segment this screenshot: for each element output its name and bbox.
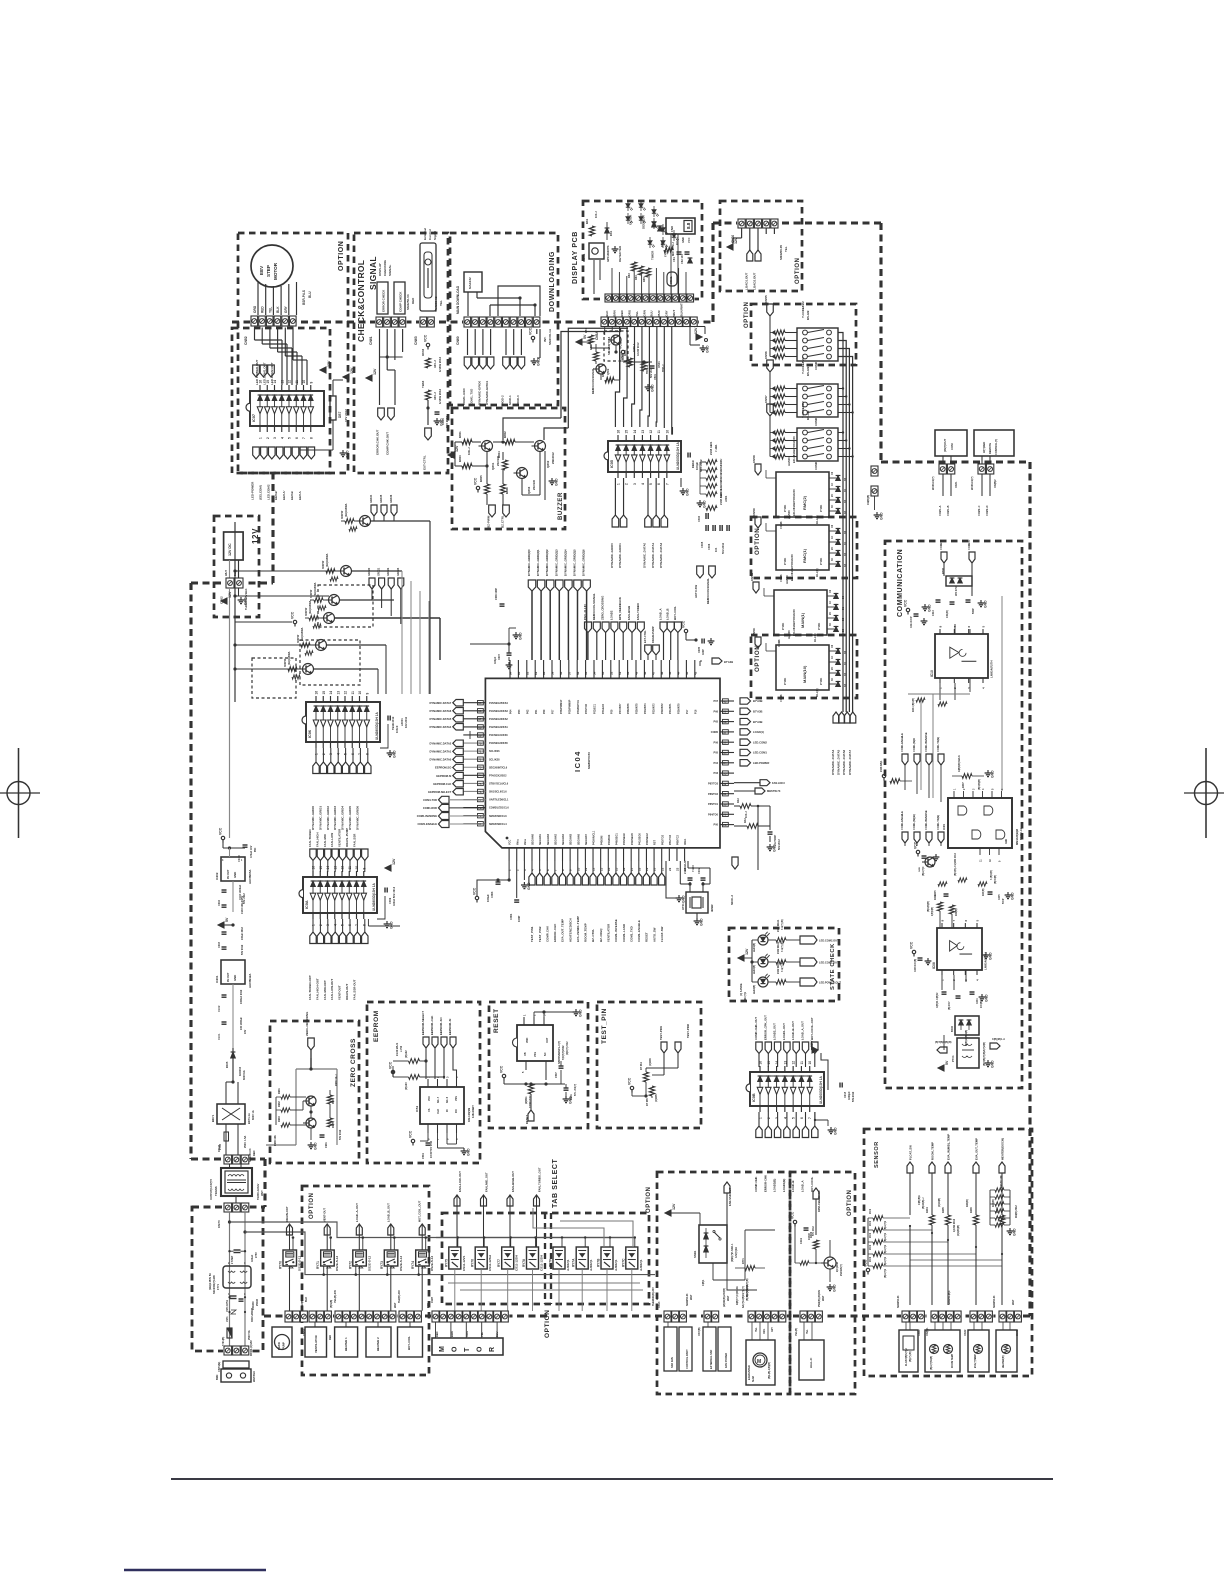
svg-text:CN11: CN11 [217,1144,221,1152]
connector CN3A [284,1311,308,1323]
svg-text:9*10K: 9*10K [783,678,787,685]
svg-text:COM2..C: COM2..C [978,505,981,516]
svg-text:8.8: 8.8 [686,222,691,229]
OPTION box (MAIN10) [751,635,857,698]
svg-text:EEPROM..SI: EEPROM..SI [448,1018,452,1035]
svg-text:110(?)1: 110(?)1 [745,991,747,1000]
collector wires right [313,521,440,669]
svg-text:GR120: GR120 [367,567,371,576]
label YEL(B)-23V [330,1290,337,1308]
relay RY72 [348,1250,371,1271]
svg-text:2SD2012: 2SD2012 [551,452,555,464]
zc wires [276,1090,330,1140]
svg-text:WHT: WHT [224,570,228,576]
svg-text:P17: P17 [686,709,689,714]
svg-text:GR121: GR121 [377,567,381,576]
svg-text:IC201: IC201 [215,975,219,983]
svg-text:1: 1 [617,483,621,485]
svg-text:FAN..TURBO: FAN..TURBO [308,829,312,847]
labels below IC0A [308,975,356,1000]
svg-text:R405: R405 [942,1207,945,1213]
svg-text:C31(B): C31(B) [946,610,949,618]
svg-text:55: 55 [584,671,588,675]
svg-text:7-4(?) (B): 7-4(?) (B) [781,919,784,930]
svg-text:45: 45 [668,671,672,675]
labels sensor ladder [1000,1175,1018,1218]
resistor RB11 (reset) [525,1084,534,1108]
svg-text:HALL-IC: HALL-IC [809,1358,813,1368]
box COMP CHECK [394,282,405,314]
svg-text:HOT..COIL: HOT..COIL [407,1336,411,1350]
SSR RY77 [497,1247,519,1271]
svg-text:C203: C203 [218,941,221,948]
12V arrow (check) [366,368,377,381]
svg-text:BZ-PWM: BZ-PWM [487,515,491,528]
main PCB boundary right edge upper [879,223,882,462]
VCC (sensor) [864,1259,870,1274]
svg-text:DB7: DB7 [338,411,342,418]
svg-text:ULN2803D(13H 1A: ULN2803D(13H 1A [375,711,379,740]
GND (cn33) [874,496,884,520]
wire ROOM.TEMP down [931,1173,933,1215]
svg-text:INT.: INT. [543,337,547,343]
svg-text:12V: 12V [455,445,459,452]
svg-text:(C)R05: (C)R05 [655,1094,658,1102]
main PCB boundary right jog up [711,223,714,322]
wire right col down [758,806,770,870]
wires sensor loads [906,1323,1010,1331]
GND (IC0B) [828,1120,838,1135]
svg-text:16: 16 [315,691,319,695]
svg-text:12V: 12V [228,591,232,598]
IC04 left pin stubs [463,703,485,824]
IC04 bottom pin stubs [509,848,684,861]
TAB SELECT box [442,1213,649,1304]
IC MAX232 (download) [464,272,482,292]
wire SSR RY7C down [631,1269,633,1311]
IC IC09 comm gate [942,788,1023,862]
svg-text:RPN_FEEDBACK: RPN_FEEDBACK [618,597,622,620]
svg-text:12V: 12V [672,1203,676,1210]
net flag EVA.IN/MID.TEMP (bottom) [575,873,581,942]
svg-text:300PW: 300PW [322,560,325,569]
svg-text:CN37: CN37 [431,1296,434,1303]
svg-text:39: 39 [723,710,727,714]
SSR RY7F [549,1247,571,1271]
svg-text:C(B)(M)1..A: C(B)(M)1..A [992,1038,1005,1041]
svg-text:2102: 2102 [870,1256,872,1262]
svg-text:CN70: CN70 [217,1220,221,1228]
svg-text:COM6: COM6 [779,694,783,702]
svg-text:15: 15 [322,691,326,695]
mains bus to relays A [230,1222,637,1238]
svg-text:AJ922(1: AJ922(1 [639,1259,643,1271]
7seg display [666,218,695,234]
svg-text:GND: GND [700,918,704,926]
wire FLOAT.SW down [909,1173,911,1215]
display wires [594,234,686,294]
svg-text:7-4(?) (B): 7-4(?) (B) [781,961,784,972]
svg-text:13: 13 [599,867,603,871]
svg-text:GND: GND [233,975,237,981]
net flag B7'A3B (right) [740,698,763,704]
EEPROM box [367,1002,480,1163]
svg-text:YEL: YEL [807,1329,809,1334]
svg-text:C901: C901 [325,1142,328,1148]
net flag COM1.RXD [423,804,486,811]
svg-text:GND: GND [991,770,995,778]
OPTION box (top right) [720,201,802,291]
resistor R912 [310,598,326,603]
svg-text:100uF 2012: 100uF 2012 [241,926,244,940]
wire flag-relay RY74 [421,1224,423,1250]
wires comm mid [905,843,948,846]
connector CN7G [703,1311,720,1323]
labels RED BLU (term1) [939,465,950,470]
caps crystal C101 C102 [683,860,706,880]
svg-text:57: 57 [567,671,571,675]
svg-text:P27/INT7: P27/INT7 [619,703,622,714]
svg-text:YEL: YEL [784,246,788,252]
svg-text:SEG/AN5: SEG/AN5 [570,833,573,845]
svg-text:COM0: COM0 [711,731,719,734]
svg-text:EEPROM.SELECT: EEPROM.SELECT [428,790,451,794]
capacitor C63 [435,412,450,428]
svg-text:RED: RED [252,1150,256,1156]
svg-text:FAN..HIGH-OUT: FAN..HIGH-OUT [315,978,319,1000]
svg-text:5V: 5V [225,917,229,922]
svg-text:LED.POWER: LED.POWER [753,761,769,765]
svg-text:C1C2: C1C2 [218,1005,221,1012]
svg-text:R65: R65 [642,277,646,282]
wires com2 flags [944,563,972,596]
connector CN43 [969,1311,993,1323]
cap C018 (IC0B) [840,1083,855,1103]
svg-text:WX 0794: WX 0794 [955,585,958,596]
svg-text:P16: P16 [694,709,697,714]
net flag EVA.OUT.TEMP (sensor) [973,1162,979,1173]
svg-text:(R)102: (R)102 [405,1050,408,1058]
svg-text:RY7C: RY7C [621,1258,625,1267]
svg-text:EEV: EEV [259,265,264,275]
svg-text:500P: 500P [972,608,975,614]
svg-text:(B)A(?)1: (B)A(?)1 [884,1256,887,1266]
net flag B7'A3B (right) [740,708,763,714]
svg-text:(B)A(?)TH(B): (B)A(?)TH(B) [930,1356,933,1370]
svg-text:76: 76 [478,790,482,794]
label Q905 [310,582,317,598]
svg-text:GR336: GR336 [389,494,393,503]
svg-text:65: 65 [478,701,482,705]
svg-text:UART/LED6/CL1: UART/LED6/CL1 [489,799,509,802]
svg-text:OPTION: OPTION [754,528,761,555]
IC04 left pin names [489,702,509,826]
transistor Q901 (zc) [303,1096,316,1106]
svg-text:43: 43 [685,671,689,675]
cap C006 (left dec) [495,588,505,607]
svg-text:16: 16 [259,380,263,384]
svg-text:RED: RED [261,306,265,313]
svg-text:C001: C001 [509,913,513,920]
net flag DRAIN-PUMP (mid) [651,626,659,660]
IC IC07 [246,380,324,439]
svg-text:SEG/AN3: SEG/AN3 [554,833,557,845]
svg-text:ORG: ORG [627,309,631,316]
label SM61 [667,272,677,286]
cap C205 [222,895,245,914]
svg-text:CN5A: CN5A [595,331,599,340]
wire SSR RY7F down [558,1269,560,1311]
labels LED wires [255,359,274,385]
svg-text:C507: C507 [555,1072,558,1078]
net flag ROOM.TEMP (bottom) [582,873,588,942]
caps C313 C314 [932,600,975,618]
svg-text:OUTPUT(12.5V)*2: OUTPUT(12.5V)*2 [210,1179,213,1200]
svg-text:EEPROM.CLK: EEPROM.CLK [433,782,451,786]
wires CN52 to IC07 [255,328,308,386]
svg-text:12: 12 [792,1061,796,1065]
cap C501 [650,366,658,380]
svg-text:AUTO..SW: AUTO..SW [652,927,656,942]
cap CX1 [228,1244,258,1264]
svg-text:10: 10 [358,691,362,695]
cap C12 (right) [768,832,782,850]
net flag BZ-PWM [487,505,496,528]
svg-text:COM3/LED1/CL6: COM3/LED1/CL6 [489,807,509,810]
GND (zc) [308,1142,318,1150]
svg-text:CS: CS [428,1108,431,1112]
svg-text:RS-422: RS-422 [806,310,810,320]
svg-text:MOTOR: MOTOR [273,262,278,280]
svg-text:BLK: BLK [605,310,609,317]
net flag LED.POWER.OUT [800,978,841,986]
svg-text:GND: GND [527,882,531,890]
svg-text:C306: C306 [707,543,711,550]
svg-text:R63: R63 [627,273,631,278]
svg-text:5V: 5V [583,334,587,339]
svg-text:100P: 100P [702,649,705,655]
wires 12V to CN62 [230,560,239,578]
svg-text:IC10: IC10 [930,670,934,677]
svg-text:GR334: GR334 [369,494,373,503]
svg-text:2 STEP: 2 STEP [231,1255,234,1264]
test pin wires [646,1053,678,1078]
VCC (rpm) [791,1211,797,1226]
resistor R801 [458,431,472,455]
svg-text:ULN2003D(13H 1A: ULN2003D(13H 1A [819,1075,823,1104]
svg-text:IC51: IC51 [415,1106,419,1112]
caps C507 C501 (reset) [555,1041,577,1100]
net flag EEPROM.CLK [433,781,463,787]
svg-text:EEPROM: EEPROM [373,1010,380,1042]
svg-text:C018: C018 [844,1091,847,1098]
svg-text:50V 2012: 50V 2012 [339,1129,342,1140]
wire DB7 to 12V [333,380,343,396]
wires IC0A to flags [313,919,365,932]
svg-text:1N4003: 1N4003 [238,1066,242,1076]
DIP unit MAIN(10) [752,609,847,702]
connector CN13 [663,1311,687,1323]
svg-text:COM2-C: COM2-C [967,540,971,550]
12V arrow (cn5a) [694,327,708,342]
svg-text:VCC: VCC [864,1259,868,1267]
svg-text:Y-CODE/N#2: Y-CODE/N#2 [801,357,805,374]
svg-text:7: 7 [808,1117,812,1119]
net flag COM1.LAND (bottom) [620,873,626,942]
svg-text:12: 12 [592,867,596,871]
chain top wires [223,842,245,850]
svg-text:1(B)0(B): 1(B)0(B) [932,907,934,916]
svg-text:EXT-CTRL: EXT-CTRL [423,455,427,470]
svg-text:GR122: GR122 [386,567,390,576]
svg-text:46: 46 [660,671,664,675]
diode D105 [225,1048,246,1082]
svg-text:COM1.INVERSE: COM1.INVERSE [417,814,438,818]
IC04 bottom pin numbers [508,867,687,871]
svg-text:16V-2012: 16V-2012 [404,716,408,728]
svg-text:BLK: BLK [305,1297,308,1302]
resistor R61 [585,211,598,236]
svg-text:CONTROL PART: CONTROL PART [686,1349,689,1369]
svg-text:FAN..TURBO-OUT: FAN..TURBO-OUT [308,975,312,1000]
svg-text:1/16W 2012: 1/16W 2012 [438,356,442,372]
svg-text:9*10K: 9*10K [817,623,821,630]
svg-text:(B)S(B): (B)S(B) [330,1300,333,1308]
registration mark left [0,748,40,838]
svg-text:GND: GND [390,921,394,929]
svg-text:FAN..MID..OUT: FAN..MID..OUT [485,1172,489,1192]
svg-text:VCC: VCC [791,1211,795,1219]
svg-text:IC0B: IC0B [752,1093,756,1102]
svg-text:35: 35 [723,751,727,755]
IC04 bottom wires to flags [532,861,662,873]
wires download header [468,286,540,316]
svg-text:P81/TO2: P81/TO2 [669,834,672,845]
12V arrow (IC0B) [810,1040,828,1090]
svg-text:O: O [477,1346,484,1352]
ic05 gnd wire [671,478,673,482]
svg-text:VCC: VCC [428,1096,431,1101]
svg-text:LOAD2.OUT: LOAD2.OUT [753,272,757,290]
svg-text:DYNAMIC..GRID0: DYNAMIC..GRID0 [610,543,614,568]
svg-text:DYNAMIC.DATA5: DYNAMIC.DATA5 [429,717,451,721]
svg-text:COM1.TXD: COM1.TXD [423,798,437,802]
5V arrow (comm bottom) [938,1060,957,1071]
transistor Q902 (zc) [303,1118,316,1128]
svg-text:DISPLAY PCB: DISPLAY PCB [572,231,579,284]
svg-text:DYNAMIC.DATA4: DYNAMIC.DATA4 [429,725,451,729]
svg-text:YEL: YEL [439,300,443,306]
svg-text:EXTERNAL SSR: EXTERNAL SSR [710,1350,713,1369]
res R313 R314 [928,894,958,916]
svg-text:22: 22 [668,867,672,871]
svg-text:OPTION: OPTION [795,257,801,284]
svg-text:DYNAMIC..GRID4: DYNAMIC..GRID4 [341,806,345,830]
svg-text:RMC(1): RMC(1) [802,548,807,563]
registration mark right [1184,748,1224,838]
svg-text:P85/TO1: P85/TO1 [708,803,719,806]
resistor R924 [305,651,313,655]
flags GR12x [367,567,404,589]
load HEATER 2 [366,1327,391,1357]
svg-text:9*10K: 9*10K [819,558,823,565]
svg-text:GND: GND [880,512,884,520]
svg-text:12V: 12V [694,327,698,334]
svg-text:R904: R904 [332,1098,335,1104]
connector CN33 [867,466,879,506]
svg-text:LED.COM2.OUT: LED.COM2.OUT [819,939,839,943]
net flag EVA.OUT_TEMP (bottom) [559,873,565,942]
svg-text:LOAD..A: LOAD..A [801,1181,805,1193]
OPTION box (RMC1) [751,517,857,578]
svg-text:REMOCON.SIGNAL: REMOCON.SIGNAL [706,578,710,604]
resistor R804 [497,451,508,470]
svg-text:6: 6 [800,1117,804,1119]
svg-text:COMI..ENABLE: COMI..ENABLE [900,811,904,830]
svg-text:P14/SEG34/KS3: P14/SEG34/KS3 [489,710,508,713]
wires CN61 down [380,329,403,405]
junction (check) [426,406,429,409]
load FLOAT S/W [899,1330,918,1372]
svg-text:C61: C61 [672,257,676,262]
svg-text:1: 1 [259,437,263,439]
terminal block WIRED REMOTE [974,430,1014,456]
GND (ic05) [680,478,690,496]
svg-text:CN13: CN13 [658,1301,661,1308]
svg-text:3: 3 [273,437,277,439]
svg-text:10V 2012: 10V 2012 [344,409,348,422]
svg-text:300PW: 300PW [341,510,344,519]
resistor ladder (2108 AB/1) [709,441,718,455]
svg-text:C501: C501 [654,373,657,380]
svg-text:LOAD2(B): LOAD2(B) [773,1179,777,1192]
OPTION box (SSR fan) [657,1172,790,1394]
connector CN41 [901,1311,925,1323]
svg-text:TIMER: TIMER [651,250,655,260]
svg-text:C308 100(B): C308 100(B) [915,959,917,972]
resistor R803 [458,455,472,469]
wire SSR RY77 down [507,1269,509,1311]
svg-text:C003: C003 [490,891,494,898]
svg-text:VCC: VCC [219,827,223,835]
label 2102 MAJ1 (1) [777,941,784,954]
svg-text:5: 5 [649,483,653,485]
svg-text:DYNAMIC..DATA4: DYNAMIC..DATA4 [831,749,835,775]
wires IC05 to flags [615,478,664,515]
VCC (check) [424,334,430,349]
svg-text:100uF: 100uF [251,1254,254,1262]
svg-text:GRN: GRN [642,310,646,316]
svg-text:WX00-C2(?): WX00-C2(?) [971,476,974,490]
svg-text:DS2E-S-12: DS2E-S-12 [335,1255,339,1271]
svg-text:2C: 2C [831,667,834,670]
svg-text:P41/SEG6: P41/SEG6 [638,833,641,845]
svg-text:VCC: VCC [473,887,477,895]
rotary switch SW1 (RSW1) [764,295,838,370]
svg-text:WHT: WHT [727,1295,730,1301]
svg-text:VCC: VCC [682,620,686,628]
svg-text:HEATER 2: HEATER 2 [376,1337,380,1351]
svg-text:IC0A: IC0A [305,900,309,909]
wire IC0A pin9 right [368,919,400,926]
svg-text:600V/1A: 600V/1A [243,1070,246,1080]
svg-text:FLOAT..SW: FLOAT..SW [909,1145,913,1160]
svg-text:ZERO..CROSSING: ZERO..CROSSING [305,1012,309,1036]
svg-text:15: 15 [615,867,619,871]
svg-text:82: 82 [525,671,529,675]
svg-text:SIGNAL: SIGNAL [388,264,392,276]
net flags above IC0A [310,849,368,861]
